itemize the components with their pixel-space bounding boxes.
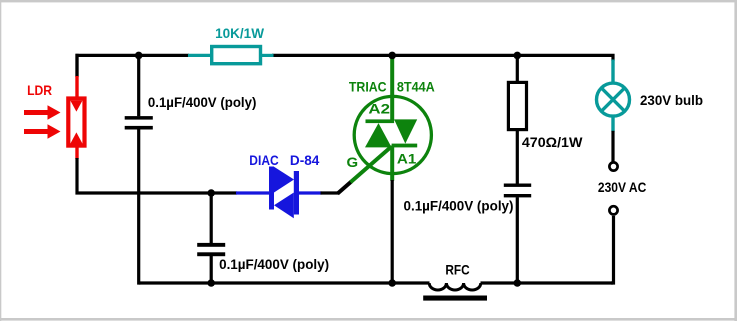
svg-text:G: G xyxy=(347,154,359,170)
wire triac to bottom rail xyxy=(391,180,394,285)
svg-text:DIAC: DIAC xyxy=(249,152,278,168)
svg-text:0.1µF/400V (poly): 0.1µF/400V (poly) xyxy=(404,198,514,214)
wire LDR branch upper xyxy=(75,54,78,97)
wire terminal 2 to bottom rail xyxy=(611,216,614,283)
svg-text:10K/1W: 10K/1W xyxy=(215,25,265,41)
svg-text:A2: A2 xyxy=(368,100,390,116)
triac U1 8T44A xyxy=(347,55,435,180)
wire LDR branch lower xyxy=(77,147,237,193)
wire gate green segment xyxy=(351,147,392,183)
node junction dot bottom rail / C3 xyxy=(514,279,522,287)
resistor R2 470ohm/1W xyxy=(508,55,583,184)
node junction dot top rail / triac xyxy=(388,52,396,60)
LDR xyxy=(27,82,84,146)
wire diac to gate xyxy=(321,181,352,193)
capacitor C3 0.1uF/400V poly (right) xyxy=(404,184,532,285)
svg-text:RFC: RFC xyxy=(445,261,469,277)
terminal 230V AC lower xyxy=(609,206,617,214)
wire bulb to terminal 1 xyxy=(611,131,614,162)
node junction dot top rail / R2 xyxy=(514,52,522,60)
wire bottom rail right segment xyxy=(481,281,614,284)
diac D1 D-84 xyxy=(236,152,322,218)
node junction dot bottom rail / C2 xyxy=(207,279,215,287)
svg-text:8T44A: 8T44A xyxy=(397,79,435,95)
wire bottom rail left segment xyxy=(139,281,430,284)
lamp 230V bulb xyxy=(597,60,704,132)
inductor RFC xyxy=(423,261,487,300)
node junction dot top rail / C1 xyxy=(135,52,143,60)
node junction dot mid wire / C2 xyxy=(207,189,215,197)
svg-text:A1: A1 xyxy=(397,150,417,166)
wire top rail left segment xyxy=(77,55,189,77)
svg-text:D-84: D-84 xyxy=(290,152,320,168)
svg-text:TRIAC: TRIAC xyxy=(349,79,387,95)
svg-text:470Ω/1W: 470Ω/1W xyxy=(522,134,583,150)
wire top rail right segment xyxy=(272,55,613,61)
svg-text:230V bulb: 230V bulb xyxy=(640,92,703,108)
svg-text:0.1µF/400V (poly): 0.1µF/400V (poly) xyxy=(148,94,257,110)
LDR light arrow 2 xyxy=(24,124,61,139)
capacitor C1 0.1uF/400V poly (left) xyxy=(125,55,257,284)
svg-text:230V AC: 230V AC xyxy=(598,179,646,195)
LDR light arrow 1 xyxy=(24,105,61,120)
node junction dot bottom rail / triac xyxy=(388,279,396,287)
resistor R1 10K/1W xyxy=(188,25,274,64)
terminal 230V AC upper xyxy=(609,162,617,170)
capacitor C2 0.1uF/400V poly (bottom left) xyxy=(197,193,329,283)
svg-text:0.1µF/400V (poly): 0.1µF/400V (poly) xyxy=(219,256,329,272)
svg-text:LDR: LDR xyxy=(27,82,52,98)
